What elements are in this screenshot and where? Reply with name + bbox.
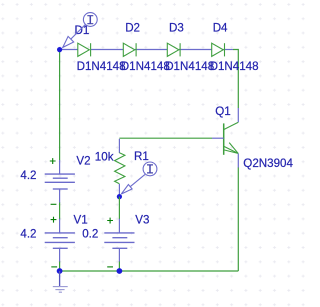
diode D2 xyxy=(123,43,136,56)
svg-text:4.2: 4.2 xyxy=(20,228,36,241)
svg-text:V1: V1 xyxy=(74,213,88,226)
svg-text:10k: 10k xyxy=(95,150,114,163)
svg-text:Q2N3904: Q2N3904 xyxy=(243,157,293,170)
label V2 xyxy=(76,154,90,167)
svg-text:D1N4148: D1N4148 xyxy=(121,60,170,73)
current probe IPROBE2 arrow xyxy=(121,174,145,194)
label Q1 xyxy=(215,105,230,118)
junction node at R1 bottom / V3 top xyxy=(117,194,122,199)
V3 plus mark xyxy=(107,218,113,224)
svg-text:D3: D3 xyxy=(169,21,184,34)
wire segment D1 cathode to D2 anode xyxy=(91,49,124,51)
transistor Q1 base bar xyxy=(223,123,225,154)
junction node at V1 bottom xyxy=(57,268,63,274)
value label 4.2 of V2 xyxy=(20,169,36,182)
wire net1 top-left vertical xyxy=(59,50,61,161)
voltage source V1 battery xyxy=(45,219,75,262)
wire R1 junction to V3 xyxy=(118,197,120,220)
junction node at D1 anode xyxy=(57,47,62,52)
svg-text:Q1: Q1 xyxy=(215,105,230,118)
diode D4 xyxy=(212,43,225,56)
voltage source V3 battery xyxy=(104,219,134,262)
wire V1 bottom to ground node xyxy=(59,262,61,272)
V3 minus mark xyxy=(107,266,113,268)
label R1 xyxy=(134,150,149,163)
junction node at V3 bottom xyxy=(117,268,123,274)
transistor Q1 collector pin xyxy=(237,108,239,122)
svg-text:4.2: 4.2 xyxy=(20,169,36,182)
wire V3 bottom to ground net xyxy=(118,262,120,272)
V2 plus mark xyxy=(50,158,56,164)
wire segment D4 cathode stub xyxy=(223,49,233,51)
svg-text:D2: D2 xyxy=(125,21,140,34)
resistor R1 body xyxy=(115,153,125,184)
svg-text:D1N4148: D1N4148 xyxy=(77,60,126,73)
current probe IPROBE1 circle xyxy=(83,13,97,27)
transistor Q1 emitter pin xyxy=(237,154,239,168)
wire emitter to bottom net xyxy=(237,168,239,272)
svg-text:D1N4148: D1N4148 xyxy=(165,60,214,73)
current probe IPROBE1 arrow xyxy=(63,25,85,48)
value label 10k xyxy=(95,150,114,163)
ground symbol 0 xyxy=(53,271,68,292)
svg-text:D1N4148: D1N4148 xyxy=(210,60,259,73)
value label D1N4148 of D4 xyxy=(210,60,259,73)
label D4 xyxy=(213,21,228,34)
resistor R1 pin top xyxy=(118,139,120,153)
value label D1N4148 of D2 xyxy=(121,60,170,73)
svg-text:V2: V2 xyxy=(76,154,90,167)
svg-text:D4: D4 xyxy=(213,21,228,34)
label D3 xyxy=(169,21,184,34)
wire segment D2 cathode to D3 anode xyxy=(135,49,167,51)
label D1 xyxy=(75,24,90,37)
wire V2 to V1 xyxy=(59,203,61,220)
transistor Q1 collector diagonal xyxy=(224,122,239,129)
voltage source V2 battery xyxy=(45,160,75,203)
wire base net R1 corner to Q1 base xyxy=(119,137,212,139)
wire top-right elbow to collector xyxy=(233,50,238,109)
current probe IPROBE2 circle xyxy=(143,162,157,176)
diode D3 xyxy=(167,43,180,56)
value label D1N4148 of D1 xyxy=(77,60,126,73)
svg-text:0.2: 0.2 xyxy=(82,228,98,241)
V1 minus mark xyxy=(51,266,57,268)
value label Q2N3904 xyxy=(243,157,293,170)
label D2 xyxy=(125,21,140,34)
value label 0.2 xyxy=(82,228,98,241)
diode D1 xyxy=(78,43,91,56)
transistor Q1 base pin xyxy=(212,137,224,139)
V1 plus mark xyxy=(51,217,57,223)
label V3 xyxy=(135,213,149,226)
transistor Q1 emitter diagonal with arrow xyxy=(224,143,239,154)
svg-text:R1: R1 xyxy=(134,150,149,163)
resistor R1 pin bottom xyxy=(118,184,120,197)
wire top run segment junction to D1 anode xyxy=(60,49,78,51)
wire bottom ground net xyxy=(60,270,239,272)
label V1 xyxy=(74,213,88,226)
svg-text:V3: V3 xyxy=(135,213,149,226)
value label D1N4148 of D3 xyxy=(165,60,214,73)
wire segment D3 cathode to D4 anode xyxy=(179,49,212,51)
V2 minus mark xyxy=(51,203,57,205)
value label 4.2 of V1 xyxy=(20,228,36,241)
